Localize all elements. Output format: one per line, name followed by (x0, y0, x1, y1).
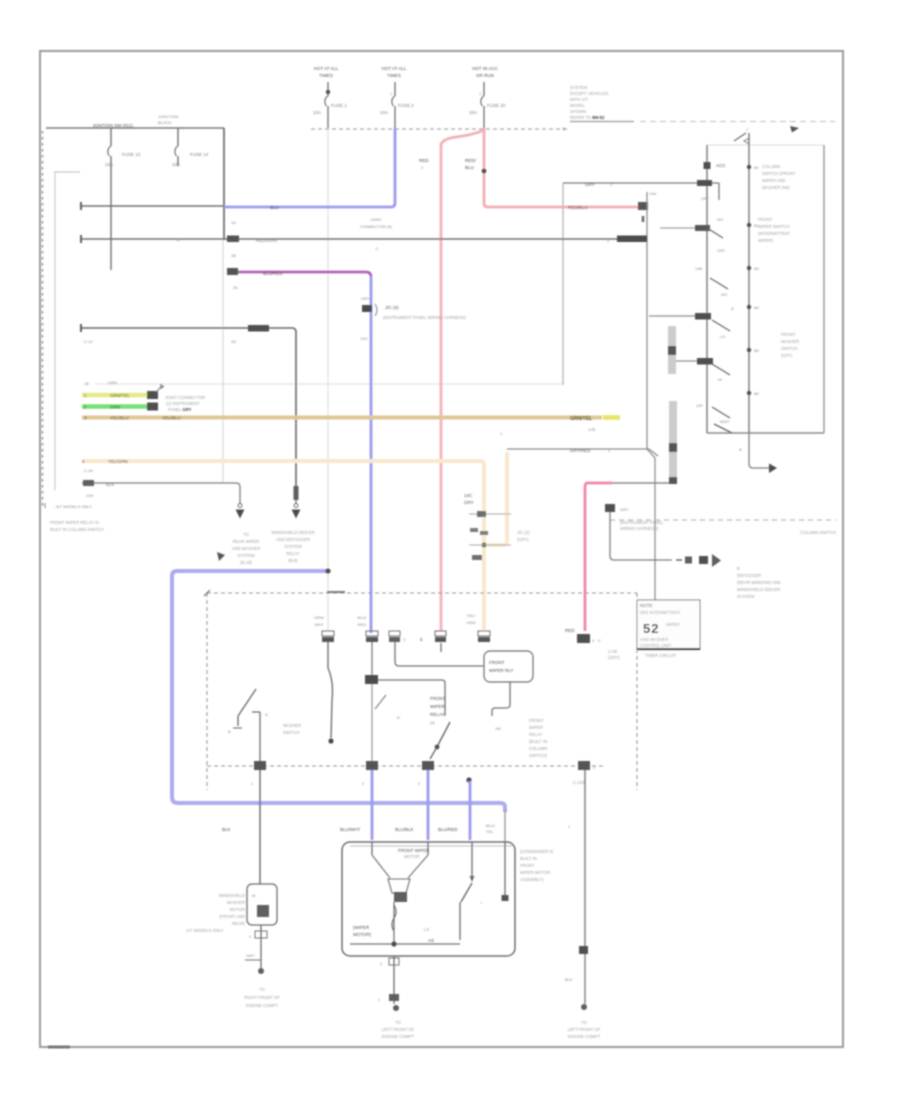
svg-text:4D: 4D (231, 339, 236, 344)
svg-text:BLU/: BLU/ (358, 615, 368, 620)
svg-text:(OFF): (OFF) (781, 353, 793, 358)
svg-text:OFF: OFF (701, 196, 710, 201)
svg-text:ENGINE COMPT: ENGINE COMPT (382, 1034, 415, 1039)
svg-text:B1: B1 (754, 165, 760, 170)
svg-text:OR RUN: OR RUN (476, 73, 494, 78)
svg-text:B3: B3 (754, 266, 760, 271)
text block switch right 3 (781, 332, 799, 358)
wire: YEL/BLU tan long (82, 416, 620, 433)
svg-text:WIPER AND: WIPER AND (762, 178, 786, 183)
windshield washer motor (247, 884, 277, 925)
svg-text:C-12: C-12 (84, 339, 93, 344)
relay coil K1 (395, 641, 533, 731)
svg-text:RED: RED (419, 158, 429, 163)
svg-text:BLU: BLU (465, 165, 474, 170)
svg-text:SEE INTERMITTENT: SEE INTERMITTENT (640, 610, 681, 615)
off-page label right of arrow (737, 566, 781, 599)
wire: BLU vertical to relay (370, 276, 373, 633)
column switch box outline (707, 145, 824, 433)
svg-text:(B-6): (B-6) (288, 558, 298, 563)
pin squares on rail (704, 162, 727, 169)
svg-text:GRN/YEL: GRN/YEL (110, 393, 130, 398)
svg-text:YEL/BLU: YEL/BLU (162, 416, 181, 421)
svg-text:WIPER: WIPER (430, 704, 446, 709)
switch common bus (744, 127, 749, 433)
svg-text:BLU/: BLU/ (486, 823, 496, 828)
svg-text:MIST: MIST (720, 419, 730, 424)
note box 52 (637, 600, 700, 658)
svg-text:FUSE 1: FUSE 1 (331, 103, 347, 108)
svg-text:SYSTEM: SYSTEM (570, 85, 588, 90)
ground point label left (244, 987, 280, 1008)
wire: BLU/RED magenta (227, 268, 371, 277)
legend note block top right (563, 85, 835, 133)
svg-text:WINDSHIELD: WINDSHIELD (219, 893, 245, 898)
svg-text:SYSTEM: SYSTEM (737, 594, 755, 599)
svg-text:RELAY: RELAY (286, 551, 300, 556)
wire: RED from fuse 20 (441, 128, 640, 210)
joint connector J/C on blue (360, 296, 466, 341)
J/C arrow pointer (156, 384, 205, 413)
joint connector label (360, 217, 392, 251)
svg-text:FRONT: FRONT (430, 696, 446, 701)
svg-text:1B: 1B (84, 381, 89, 386)
svg-text:WIPER): WIPER) (758, 238, 774, 243)
wire: washer motor ground (245, 925, 267, 974)
svg-text:(CONDENSER IS: (CONDENSER IS (520, 849, 553, 854)
svg-text:FUSE 20: FUSE 20 (487, 103, 506, 108)
svg-text:14G: 14G (360, 336, 368, 341)
front wiper motor box (342, 842, 515, 956)
svg-text:WASHER SW): WASHER SW) (762, 185, 790, 190)
svg-text:GRY: GRY (585, 182, 595, 187)
node: HOT AT ALL TIMES column B (382, 66, 407, 128)
switch position labels (695, 248, 730, 424)
svg-text:BLU/RED: BLU/RED (263, 271, 283, 276)
fuse F3 (313, 96, 347, 115)
faint optional-equipment enclosure (95, 130, 563, 633)
wire: BLU wiper LO (371, 770, 374, 840)
svg-text:RELAY: RELAY (430, 712, 444, 717)
text block switch right 2 (758, 217, 791, 243)
svg-text:(BUILT IN: (BUILT IN (529, 739, 547, 744)
svg-text:BUILT IN: BUILT IN (520, 856, 537, 861)
svg-text:REAR): REAR) (232, 921, 246, 926)
svg-text:(GRY): (GRY) (608, 655, 620, 660)
svg-text:FRONT: FRONT (489, 660, 505, 665)
svg-text:TO: TO (581, 1020, 587, 1025)
svg-text:AS: AS (428, 938, 434, 943)
wire: switch input y316 (649, 313, 730, 331)
svg-text:TIMES: TIMES (319, 73, 333, 78)
svg-text:RIGHT FRONT OF: RIGHT FRONT OF (244, 995, 280, 1000)
text block switch right 1 (762, 164, 796, 190)
svg-text:52: 52 (643, 621, 659, 636)
motor park switch (350, 883, 483, 947)
svg-text:SWITCH): SWITCH) (529, 753, 548, 758)
wire: gray drop to arrow (610, 512, 721, 567)
svg-text:WIPER MOTOR: WIPER MOTOR (520, 870, 550, 875)
svg-text:10A: 10A (172, 162, 180, 167)
svg-text:WINDSHIELD DEICER: WINDSHIELD DEICER (737, 587, 780, 592)
svg-text:IGNITION SW (IG1): IGNITION SW (IG1) (93, 123, 134, 128)
svg-text:REAR WIPER: REAR WIPER (233, 539, 260, 544)
svg-text:DEFOGGER: DEFOGGER (737, 573, 761, 578)
misc small labels (592, 638, 620, 660)
svg-text:GRN/YEL: GRN/YEL (570, 416, 592, 422)
wire: switch input y361 (672, 358, 730, 375)
svg-text:10A: 10A (313, 110, 321, 115)
switch blades mid (710, 278, 732, 433)
svg-text:1A: 1A (231, 220, 236, 225)
svg-text:OFF: OFF (717, 248, 726, 253)
wire: switch output to arrow (739, 433, 777, 473)
ground point label center (382, 1020, 415, 1039)
svg-text:B: B (228, 729, 231, 734)
svg-text:BLOCK: BLOCK (158, 120, 172, 125)
wire color labels above motor (222, 823, 571, 834)
svg-text:10A: 10A (380, 110, 388, 115)
wire: GRN/YEL yellow (82, 391, 158, 399)
wire: column switch feed vertical (647, 192, 655, 600)
motor internal labels (353, 925, 429, 937)
svg-text:FRONT: FRONT (758, 217, 773, 222)
fuse F1 (105, 146, 141, 167)
svg-text:GRY: GRY (246, 953, 255, 958)
svg-text:(B-18): (B-18) (240, 560, 252, 565)
svg-text:GRN: GRN (467, 620, 476, 625)
svg-text:GRY: GRY (361, 296, 370, 301)
svg-text:BLU: BLU (270, 205, 279, 210)
svg-text:AND WASHER: AND WASHER (640, 637, 668, 642)
off-page arrow at x240 (236, 504, 245, 519)
svg-text:14F: 14F (696, 403, 703, 408)
svg-text:A: A (265, 712, 268, 717)
wire: junction block output bus (224, 128, 238, 344)
node junction dot (482, 169, 487, 174)
svg-text:COLUMN: COLUMN (762, 164, 780, 169)
svg-text:FRONT: FRONT (529, 718, 544, 723)
relay switch blade from x328 (328, 642, 334, 744)
svg-text:BLK: BLK (222, 827, 231, 832)
svg-text:HOT AT ALL: HOT AT ALL (382, 66, 407, 71)
svg-text:14C: 14C (464, 493, 473, 498)
svg-text:GRY: GRY (620, 507, 629, 512)
svg-text:LEFT FRONT OF: LEFT FRONT OF (382, 1027, 415, 1032)
svg-text:GRN/: GRN/ (314, 615, 325, 620)
fuse F5 (469, 96, 506, 115)
wire faint continuation (222, 240, 224, 483)
wire: PNK to gray y483 (585, 483, 669, 631)
svg-text:(INTERMITTENT: (INTERMITTENT (758, 231, 791, 236)
svg-text:JOINT: JOINT (370, 217, 382, 222)
svg-text:TIMER CIRCUIT: TIMER CIRCUIT (645, 653, 677, 658)
fuse F2 (172, 146, 209, 167)
svg-text:BLU/RED: BLU/RED (438, 827, 458, 832)
off-page arrow at x296 (292, 486, 301, 519)
relay pin x395 (389, 631, 406, 642)
svg-text:SYSTEM: SYSTEM (284, 544, 302, 549)
svg-text:ACC: ACC (716, 163, 726, 168)
svg-text:REFER TO 8W-52: REFER TO 8W-52 (570, 115, 605, 120)
wire: peach y461 (82, 459, 484, 631)
svg-text:C-06: C-06 (608, 649, 618, 654)
svg-text:WITH A/T: WITH A/T (570, 97, 589, 102)
wire: GRY/RED y449 (500, 431, 658, 456)
wire: y328 to arrow (81, 324, 296, 486)
wire: GRY input y183 (563, 180, 719, 201)
svg-text:CONNECTOR (3): CONNECTOR (3) (360, 224, 392, 229)
svg-text:ASSEMBLY): ASSEMBLY) (520, 877, 544, 882)
svg-text:RED/: RED/ (465, 158, 477, 163)
node: HOT IN ACC OR RUN column C (472, 66, 498, 128)
svg-text:(REAR WINDOW) AND: (REAR WINDOW) AND (737, 580, 781, 585)
svg-text:TO: TO (243, 532, 249, 537)
svg-text:YEL/GRN: YEL/GRN (108, 459, 128, 464)
off-page destination labels (232, 532, 260, 565)
svg-text:14A: 14A (649, 191, 656, 196)
motor armature symbol (372, 855, 428, 902)
wire: GRN green (82, 403, 158, 411)
svg-text:C: C (376, 246, 379, 251)
svg-text:3C: 3C (233, 285, 238, 290)
svg-text:B: B (737, 566, 740, 571)
svg-text:EXCEPT VEHICLES: EXCEPT VEHICLES (570, 91, 609, 96)
svg-text:B: B (739, 447, 742, 452)
inline connector bar 1 (668, 326, 676, 374)
wire: gray stub to motor (504, 810, 506, 842)
dashed relay enclosure (204, 590, 637, 790)
svg-text:J/C (4): J/C (4) (385, 305, 399, 310)
relay pin x441 red (420, 631, 446, 652)
wire: BLU wiper HI (427, 770, 430, 840)
svg-text:(4): (4) (430, 720, 436, 725)
dashed enclosure left edge (42, 131, 44, 508)
svg-text:COLUMN: COLUMN (529, 746, 547, 751)
svg-text:YEL/BLU: YEL/BLU (110, 416, 129, 421)
svg-text:C: C (403, 637, 406, 642)
connector on red wire end (638, 191, 656, 222)
washer switch contact left (228, 689, 301, 761)
svg-text:MOTOR: MOTOR (229, 907, 245, 912)
label row above colored wires (84, 380, 117, 386)
svg-text:B6: B6 (754, 391, 760, 396)
motor note right (520, 849, 553, 882)
svg-text:C: C (598, 638, 601, 643)
svg-text:NOTE: NOTE (640, 603, 653, 608)
dashed power bus (311, 128, 567, 130)
node: HOT AT ALL TIMES column A (314, 66, 339, 128)
svg-text:B5: B5 (754, 348, 760, 353)
relay pin x585 pink (565, 628, 601, 643)
wire: switch input y228 (660, 217, 724, 238)
svg-text:RED: RED (358, 622, 367, 627)
svg-text:SWITCH: SWITCH (283, 730, 300, 735)
svg-text:2B: 2B (231, 253, 236, 258)
ground point label right (568, 1020, 601, 1039)
svg-text:LS: LS (424, 927, 429, 932)
svg-text:CONTROL UNIT: CONTROL UNIT (640, 643, 672, 648)
relay internal text block dark (430, 696, 446, 725)
svg-text:TIMES: TIMES (387, 73, 401, 78)
svg-text:RED/GRN: RED/GRN (256, 238, 277, 243)
svg-text:RELAY: RELAY (529, 732, 543, 737)
svg-text:HOT AT ALL: HOT AT ALL (314, 66, 339, 71)
svg-text:TO: TO (395, 1020, 401, 1025)
svg-text:SYSTEM: SYSTEM (237, 553, 255, 558)
svg-text:FRONT: FRONT (781, 332, 796, 337)
svg-text:ENGINE COMPT: ENGINE COMPT (246, 1003, 279, 1008)
svg-text:PANEL GRY: PANEL GRY (168, 407, 192, 412)
wire: RED vertical to relay (419, 143, 477, 631)
svg-text:ENGINE COMPT: ENGINE COMPT (568, 1034, 601, 1039)
wire: BLU from fuse 2 (224, 128, 395, 210)
switch blade top (734, 133, 746, 141)
svg-text:FRONT: FRONT (520, 863, 535, 868)
svg-text:D: D (397, 715, 400, 720)
svg-text:BUILT IN COLUMN SWITCH: BUILT IN COLUMN SWITCH (50, 527, 104, 532)
svg-text:GRN: GRN (110, 405, 120, 410)
svg-text:YEL: YEL (486, 829, 494, 834)
relay boundary pins y766 (251, 761, 596, 786)
svg-text:A: A (731, 306, 734, 311)
wire: peach vertical x507 (482, 452, 507, 547)
relay pin x484 peach (467, 613, 490, 642)
svg-text:(INSTRUMENT PANEL WIRING HARNE: (INSTRUMENT PANEL WIRING HARNESS) (383, 315, 466, 320)
svg-text:: A/T MODELS ONLY: : A/T MODELS ONLY (54, 504, 92, 509)
svg-text:BLK: BLK (565, 977, 573, 982)
svg-text:WIPER: WIPER (529, 725, 543, 730)
wire: feed from junction block (110, 128, 112, 270)
wire: black feed y206 (81, 202, 224, 210)
svg-text:WASHER: WASHER (227, 900, 245, 905)
wire: BLK y483 to arrow (82, 480, 240, 503)
svg-text:GRY/RED: GRY/RED (570, 448, 591, 453)
wire: BLU motor P (466, 777, 471, 840)
bus contact dots (731, 165, 760, 396)
svg-text:J/C (2): J/C (2) (517, 530, 530, 535)
svg-text:LO: LO (720, 334, 725, 339)
left bracket (54, 172, 80, 490)
svg-text:WASHER: WASHER (283, 723, 301, 728)
svg-text:HI: HI (718, 377, 722, 382)
svg-text:MODEL: MODEL (570, 103, 586, 108)
relay center gray note (529, 718, 548, 758)
svg-text:WIPER: WIPER (666, 622, 680, 627)
svg-text:FRONT WIPER RELAY IS: FRONT WIPER RELAY IS (50, 520, 99, 525)
svg-text:WIRING HARNESS): WIRING HARNESS) (620, 526, 659, 531)
svg-text:C-103: C-103 (573, 780, 585, 785)
svg-text:BLU/WHT: BLU/WHT (340, 827, 361, 832)
relay contact network (365, 642, 450, 761)
svg-text:(WIPER: (WIPER (353, 925, 370, 930)
svg-text:INT: INT (717, 217, 724, 222)
svg-text:SWITCH: SWITCH (781, 346, 798, 351)
svg-text:HOT IN ACC: HOT IN ACC (472, 66, 498, 71)
svg-text:MOTOR: MOTOR (404, 854, 420, 859)
svg-text:COLUMN SWITCH: COLUMN SWITCH (800, 530, 836, 535)
joint connector stack on peach (464, 493, 530, 560)
svg-text:FUSE 13: FUSE 13 (122, 152, 141, 157)
inline connector bar 2 (669, 401, 677, 484)
svg-text:WINDSHIELD DEICER: WINDSHIELD DEICER (271, 530, 314, 535)
svg-text:JUNCTION: JUNCTION (158, 114, 178, 119)
svg-text:10A: 10A (105, 162, 113, 167)
svg-text:A/T MODELS ONLY: A/T MODELS ONLY (186, 928, 224, 933)
wire: y239 long feed (81, 235, 647, 243)
svg-text:GRN: GRN (108, 380, 117, 385)
svg-text:C-34: C-34 (84, 468, 93, 473)
relay pin x372 (358, 615, 378, 642)
wire: motor ground lead (378, 956, 399, 1011)
svg-text:TO: TO (259, 987, 265, 992)
A/T note (45, 503, 104, 532)
blue loop wire (172, 552, 505, 812)
svg-text:FUSE 2: FUSE 2 (398, 103, 414, 108)
svg-text:FUSE 14: FUSE 14 (190, 152, 209, 157)
svg-text:10A: 10A (469, 110, 477, 115)
svg-text:BLU/BLK: BLU/BLK (395, 827, 414, 832)
fuse F4 (380, 96, 414, 115)
svg-text:MOTOR): MOTOR) (353, 932, 372, 937)
washer motor text block (186, 893, 246, 933)
svg-text:AND WASHER: AND WASHER (232, 546, 260, 551)
svg-text:WIPER RLY: WIPER RLY (489, 668, 513, 673)
svg-text:INT: INT (721, 292, 728, 297)
motor internal leads (372, 842, 509, 901)
svg-text:BLK: BLK (106, 482, 115, 487)
svg-text:WASHER: WASHER (781, 339, 799, 344)
wire: GRY relay to ground (584, 770, 586, 946)
dashed separator y520 (610, 520, 836, 535)
relay pin x328 (314, 615, 334, 642)
svg-text:LEFT FRONT OF: LEFT FRONT OF (568, 1027, 601, 1032)
svg-text:B4: B4 (754, 305, 760, 310)
svg-text:SHOWN: SHOWN (570, 109, 586, 114)
svg-text:GRY: GRY (464, 500, 474, 505)
svg-text:AND DEFOGGER: AND DEFOGGER (276, 537, 310, 542)
svg-text:JOINT CONNECTOR: JOINT CONNECTOR (165, 395, 205, 400)
svg-text:WIPER SWITCH: WIPER SWITCH (758, 224, 789, 229)
svg-text:14B: 14B (588, 427, 596, 432)
wire: washer motor feed (259, 770, 261, 884)
svg-text:(GRY): (GRY) (517, 537, 529, 542)
wire: relay ground lead (565, 946, 588, 1010)
svg-text:(FRONT AND: (FRONT AND (219, 914, 245, 919)
svg-text:FRONT WIPER: FRONT WIPER (398, 848, 430, 853)
svg-text:(INSTRUMENT PANEL: (INSTRUMENT PANEL (620, 520, 664, 525)
svg-text:10A: 10A (86, 493, 93, 498)
svg-text:YEL/: YEL/ (467, 613, 477, 618)
svg-text:RED: RED (565, 628, 575, 633)
svg-text:(2) INSTRUMENT: (2) INSTRUMENT (166, 401, 200, 406)
svg-text:1M: 1M (495, 726, 501, 731)
svg-text:WHT: WHT (314, 622, 324, 627)
junction block bus line (46, 114, 224, 128)
svg-text:1L: 1L (176, 237, 181, 242)
svg-text:14B: 14B (695, 266, 702, 271)
svg-text:M: M (252, 893, 255, 898)
wire: second feed (177, 128, 179, 166)
svg-text:RED/BLU: RED/BLU (568, 205, 588, 210)
svg-text:SWITCH (FRONT: SWITCH (FRONT (762, 171, 796, 176)
connector on gray drop x610 (605, 504, 664, 531)
